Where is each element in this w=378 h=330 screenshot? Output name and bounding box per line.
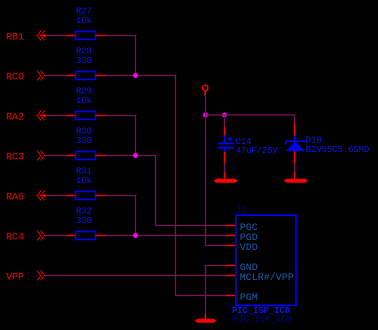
svg-text:RC3: RC3 (6, 153, 24, 164)
svg-text:RC4: RC4 (6, 233, 24, 244)
svg-text:R32: R32 (76, 206, 92, 216)
svg-text:R31: R31 (76, 166, 92, 176)
svg-text:RA6: RA6 (6, 193, 24, 204)
svg-text:RB1: RB1 (6, 33, 24, 44)
svg-text:R30: R30 (76, 126, 92, 136)
svg-text:D10: D10 (306, 136, 322, 146)
svg-text:VPP: VPP (6, 273, 24, 284)
svg-text:RC0: RC0 (6, 73, 24, 84)
svg-text:10k: 10k (76, 176, 92, 186)
svg-text:330: 330 (76, 216, 92, 226)
svg-text:J2: J2 (236, 206, 247, 216)
svg-text:10k: 10k (76, 96, 92, 106)
svg-text:R28: R28 (76, 46, 92, 56)
svg-text:330: 330 (76, 56, 92, 66)
svg-text:R29: R29 (76, 86, 92, 96)
svg-text:47uF/25V: 47uF/25V (236, 146, 279, 156)
svg-text:R27: R27 (76, 6, 92, 16)
svg-text:330: 330 (76, 136, 92, 146)
svg-text:PIC_ISP_ICD: PIC_ISP_ICD (233, 315, 291, 325)
svg-text:PGM: PGM (240, 293, 258, 304)
svg-text:BZV55C5.6SMD: BZV55C5.6SMD (306, 145, 369, 155)
svg-text:RA2: RA2 (6, 113, 24, 124)
svg-text:MCLR#/VPP: MCLR#/VPP (240, 272, 294, 284)
svg-text:10k: 10k (76, 16, 92, 26)
svg-text:VDD: VDD (240, 243, 258, 254)
